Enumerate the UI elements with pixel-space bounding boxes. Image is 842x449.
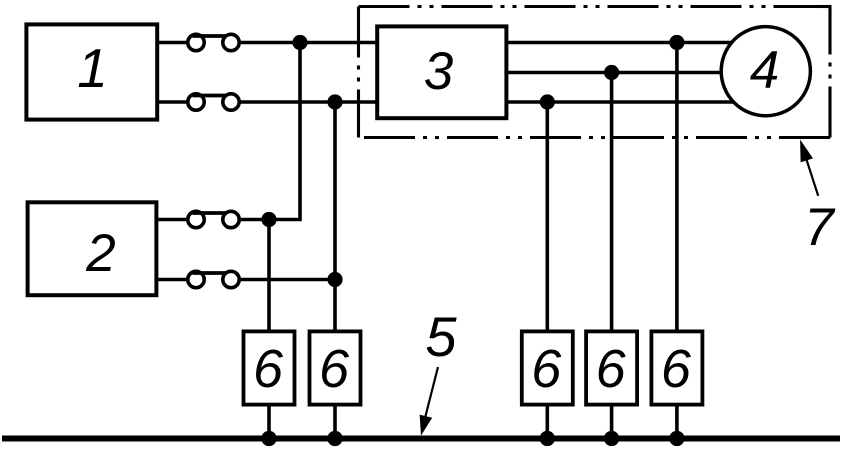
wire: breaker to block 3 bottom input: [240, 100, 377, 104]
wire: breaker to block 3 top input: [240, 41, 377, 45]
svg-text:6: 6: [531, 339, 562, 399]
svg-text:6: 6: [596, 339, 627, 399]
rail 5 (earth bus): [2, 435, 840, 441]
enclosure 7 dash-dot border right: [828, 7, 831, 138]
limiter 6c: [522, 331, 573, 404]
breaker contact circles on block 2 top wire: [188, 211, 204, 227]
wire: limiter 6a to rail: [267, 403, 271, 439]
node: junction on wire 2: [327, 94, 342, 109]
block 3: [377, 26, 506, 118]
wire: limiter 6e to rail: [675, 403, 679, 439]
node: junction on block 2 top wire: [261, 212, 276, 227]
wire C: block 3 to motor 4 bottom: [505, 100, 740, 104]
limiter 6b: [310, 331, 361, 404]
wire: limiter 6b to rail: [333, 403, 337, 439]
breaker contact circles on wire 1: [188, 34, 204, 50]
svg-text:6: 6: [253, 339, 284, 399]
breaker bar on wire 1: [193, 34, 227, 38]
node: rail junction 6b: [327, 431, 342, 446]
svg-text:5: 5: [425, 305, 457, 368]
motor 4 circle: [721, 27, 810, 116]
svg-text:2: 2: [85, 224, 115, 283]
wire: block 2 bottom output to breaker: [157, 278, 187, 282]
node: junction on wire A: [669, 35, 684, 50]
limiter 6a: [244, 331, 295, 404]
breaker contact circles on wire 2: [188, 94, 204, 110]
enclosure 7 border top-right corner patch: [818, 5, 832, 8]
wire: limiter 6d to rail: [610, 403, 614, 439]
wire B: block 3 to motor 4 middle: [505, 71, 740, 75]
svg-text:7: 7: [804, 198, 836, 257]
limiter 6d: [586, 331, 637, 404]
svg-text:4: 4: [750, 41, 779, 100]
breaker bar on wire 2: [193, 94, 227, 98]
leader arrow for 7: [805, 155, 818, 196]
node: junction on wire 1: [292, 35, 307, 50]
node: rail junction 6d: [604, 431, 619, 446]
svg-text:1: 1: [77, 37, 108, 99]
wire: vertical from wire C junction to limiter 6c: [545, 102, 549, 333]
wire: vertical tie from node on wire 2 down to limiter 6b: [333, 102, 337, 333]
breaker contact circles on block 2 bottom wire: [188, 271, 204, 287]
node: rail junction 6a: [261, 431, 276, 446]
block 1: [26, 24, 157, 119]
svg-text:6: 6: [319, 339, 350, 399]
node: junction on wire C: [540, 94, 555, 109]
wire: vertical from wire B junction to limiter 6d: [610, 73, 614, 334]
wire: breaker across to vertical tie: [240, 278, 335, 282]
enclosure 7 dash-dot border top: [359, 5, 831, 8]
breaker bar on block 2 bottom wire: [193, 271, 227, 275]
node: junction on wire B: [604, 65, 619, 80]
block 2: [28, 202, 157, 295]
enclosure 7 dash-dot border bottom: [359, 136, 831, 139]
wire: block 1 bottom output to breaker: [157, 100, 187, 104]
enclosure 7 dash-dot border left: [357, 7, 360, 138]
wire: block 1 top output to breaker: [157, 41, 187, 45]
wire: vertical from block2 top wire junction down to limiter 6a: [267, 220, 271, 334]
wire A: block 3 to motor 4 top: [505, 41, 740, 45]
svg-text:3: 3: [424, 42, 454, 101]
wire: block 2 top output to breaker: [157, 218, 187, 222]
wire: vertical from wire A junction to limiter 6e: [675, 43, 679, 334]
limiter 6e: [651, 331, 702, 404]
node: rail junction 6c: [540, 431, 555, 446]
svg-text:6: 6: [661, 339, 692, 399]
breaker bar on block 2 top wire: [193, 211, 227, 215]
leader arrow for 5: [425, 367, 439, 420]
node: rail junction 6e: [669, 431, 684, 446]
node: junction block2 bottom wire with vertical tie: [327, 272, 342, 287]
wire: breaker to corner, then up to node on wire 1: [240, 43, 300, 220]
wire: limiter 6c to rail: [545, 403, 549, 439]
